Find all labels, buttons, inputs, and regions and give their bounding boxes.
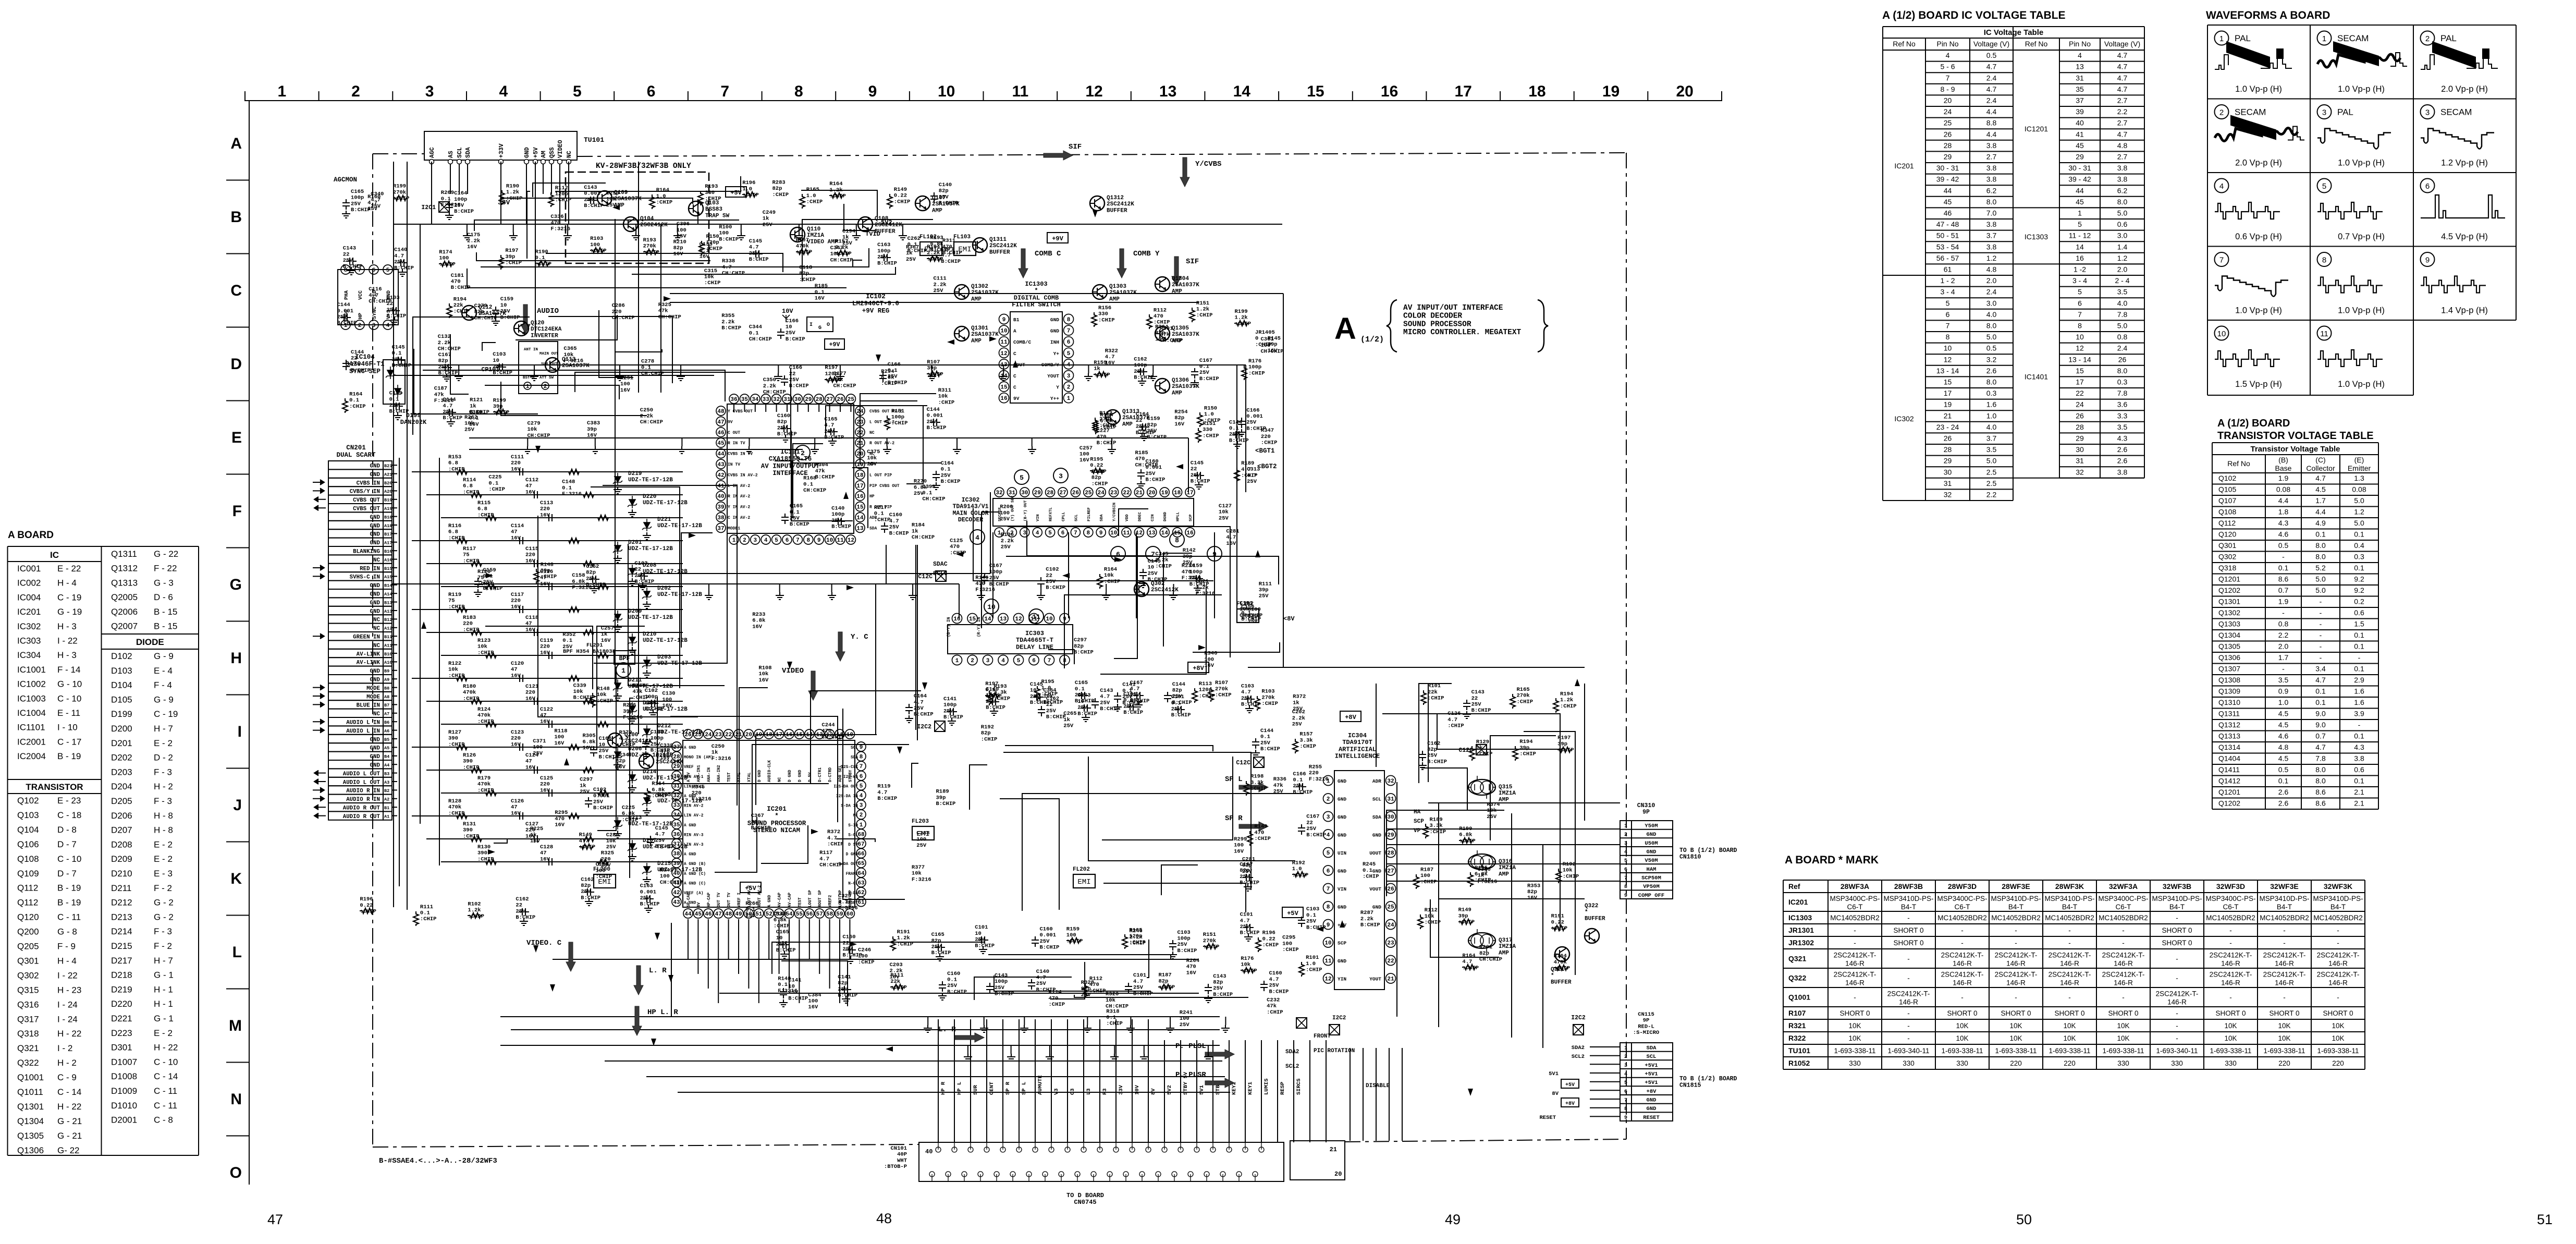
svg-text:SECAM: SECAM (2440, 107, 2472, 117)
svg-text:B:CHIP: B:CHIP (721, 325, 741, 332)
svg-text:C123: C123 (511, 729, 524, 736)
svg-text:25V: 25V (867, 461, 877, 468)
svg-text:S-ID: S-ID (848, 824, 858, 828)
wire (407, 162, 408, 910)
svg-text:DTC124EKA: DTC124EKA (531, 326, 562, 333)
connector CN101 TO D BOARD (884, 1141, 1345, 1206)
svg-text:Pin No: Pin No (2069, 40, 2091, 48)
zener diode D202 (441, 586, 683, 587)
arrow P. PLSR (1205, 1078, 1234, 1088)
svg-text:6.8k: 6.8k (914, 484, 927, 491)
svg-text:A14: A14 (384, 592, 392, 597)
svg-text:390: 390 (463, 827, 473, 834)
svg-text:B:CHIP: B:CHIP (1360, 922, 1380, 929)
svg-text:FRAME: FRAME (846, 872, 858, 876)
svg-text:+5V: +5V (533, 147, 539, 158)
svg-text:D215: D215 (111, 941, 132, 951)
svg-text:58: 58 (826, 911, 833, 918)
svg-text:1.0 Vp-p (H): 1.0 Vp-p (H) (2338, 84, 2385, 94)
svg-text:25V: 25V (438, 364, 449, 370)
waveform 8 1.0 (313, 131, 2488, 1206)
resistor R165 (1468, 872, 1473, 887)
svg-text:Q107: Q107 (932, 195, 946, 201)
svg-text:10: 10 (1110, 530, 1117, 536)
svg-text:G: G (818, 325, 821, 331)
svg-text:220: 220 (511, 598, 521, 604)
svg-text:AV INPUT/OUTPUT: AV INPUT/OUTPUT (761, 462, 820, 470)
svg-text:100: 100 (439, 255, 449, 262)
zener diode D208 (426, 563, 683, 564)
svg-text:8.0: 8.0 (2117, 367, 2128, 375)
schematic boundary bottom left (373, 1144, 919, 1147)
svg-text::CHIP: :CHIP (1420, 879, 1437, 885)
svg-text:A GND: A GND (768, 895, 772, 907)
svg-text:SHORT 0: SHORT 0 (2001, 1009, 2031, 1017)
svg-text:4.7: 4.7 (877, 789, 887, 796)
svg-text:82p: 82p (438, 358, 448, 364)
svg-text:C122: C122 (540, 706, 553, 713)
svg-text:TO D BOARD: TO D BOARD (1066, 1192, 1104, 1199)
svg-text:-: - (2229, 939, 2232, 947)
svg-text:D202: D202 (111, 753, 132, 763)
svg-text:0.1: 0.1 (2354, 665, 2364, 673)
svg-text:4.5: 4.5 (2278, 754, 2289, 763)
svg-text:15: 15 (1307, 83, 1324, 100)
svg-text:Q104: Q104 (640, 216, 654, 222)
svg-text:VP50M: VP50M (1643, 884, 1660, 890)
svg-text:MAIN OUT: MAIN OUT (539, 352, 559, 356)
svg-text:0.1: 0.1 (349, 397, 359, 404)
svg-text:-: - (1961, 939, 1964, 947)
svg-text:8: 8 (1624, 884, 1627, 890)
capacitor C145 (1194, 472, 1204, 479)
svg-text:2.2k: 2.2k (438, 340, 451, 346)
ground (847, 956, 855, 964)
transistor Q1312 (1090, 196, 1105, 211)
capacitor C160 (780, 425, 791, 432)
svg-text:25V: 25V (877, 254, 888, 261)
svg-text:25: 25 (1387, 905, 1394, 911)
svg-text:270k: 270k (1261, 694, 1274, 701)
svg-text:4.7: 4.7 (722, 264, 732, 271)
wire (511, 1029, 1220, 1030)
wire (886, 545, 887, 584)
resistor R148 (534, 569, 539, 583)
svg-text:-: - (1907, 974, 1910, 982)
svg-text:B12: B12 (384, 617, 392, 623)
svg-text:39p: 39p (1458, 913, 1468, 919)
svg-text:6.8k: 6.8k (622, 811, 635, 817)
svg-text:4: 4 (499, 83, 508, 100)
svg-text:*: * (1034, 287, 1038, 295)
svg-text:4.7: 4.7 (1448, 717, 1457, 723)
svg-text:2SC2412K-T-: 2SC2412K-T- (1834, 952, 1876, 959)
svg-text:B:CHIP: B:CHIP (438, 370, 458, 376)
svg-text:MSP3400C-PS-: MSP3400C-PS- (2205, 895, 2255, 902)
svg-text:8: 8 (1067, 317, 1071, 323)
svg-text:DIGITAL COMB: DIGITAL COMB (1014, 294, 1059, 301)
svg-text:8: 8 (806, 538, 810, 544)
svg-text:8.8: 8.8 (1986, 119, 1997, 127)
svg-text:25V: 25V (1123, 703, 1134, 710)
svg-text:C384: C384 (808, 992, 821, 998)
svg-text:IC201: IC201 (17, 607, 41, 617)
svg-text::CHIP: :CHIP (439, 261, 456, 267)
svg-text:R193: R193 (643, 237, 656, 243)
svg-text:2.2k: 2.2k (467, 238, 480, 245)
svg-text:9.0: 9.0 (2315, 710, 2326, 718)
wire (399, 458, 400, 886)
svg-text:TDA4665T-T: TDA4665T-T (1016, 637, 1053, 644)
wire (1068, 532, 1069, 618)
node waveform ref 10 (984, 599, 999, 614)
svg-text:1.0 Vp-p (H): 1.0 Vp-p (H) (2338, 306, 2385, 315)
arrow Y/CVBS (1180, 157, 1189, 187)
svg-text:ARTIFICIAL: ARTIFICIAL (1339, 746, 1376, 753)
svg-text:L OUT PIP: L OUT PIP (869, 473, 892, 478)
svg-text:48: 48 (717, 409, 725, 415)
svg-text:O: O (827, 322, 830, 328)
svg-text:220: 220 (692, 790, 702, 797)
svg-text:25V: 25V (1183, 560, 1193, 566)
resistor R165 (1122, 934, 1127, 949)
svg-text:1-693-338-11: 1-693-338-11 (1834, 1047, 1875, 1055)
waveform 5 0.7 (313, 131, 2505, 1206)
svg-text::CHIP: :CHIP (477, 787, 494, 794)
svg-text:R185: R185 (815, 283, 828, 289)
svg-text:25V: 25V (655, 837, 666, 844)
svg-text:51: 51 (2537, 1212, 2553, 1227)
svg-text:0.1: 0.1 (1293, 777, 1303, 784)
capacitor C165 (827, 428, 838, 435)
svg-text:1.2k: 1.2k (468, 907, 481, 913)
svg-text:28WF3B: 28WF3B (1894, 882, 1923, 891)
svg-text:2: 2 (1067, 385, 1071, 391)
svg-text:13: 13 (1000, 616, 1007, 623)
ground (938, 993, 947, 1000)
svg-text:F - 3: F - 3 (154, 796, 172, 806)
wire (431, 162, 432, 177)
resistor R193 (987, 691, 992, 705)
svg-text:R294: R294 (881, 369, 894, 375)
svg-text:D-CTR1: D-CTR1 (818, 767, 823, 782)
svg-text:D212: D212 (657, 723, 671, 729)
capacitor C140 (989, 698, 999, 705)
svg-text:16V: 16V (1186, 970, 1197, 976)
ground stubs (455, 224, 1230, 1061)
svg-text:C164: C164 (1136, 411, 1149, 418)
svg-text:AGC: AGC (429, 147, 436, 158)
svg-text:R3: R3 (1102, 1088, 1108, 1095)
capacitor C164 (446, 201, 453, 211)
svg-text:BUFFER: BUFFER (989, 249, 1010, 255)
A BOARD location table (8, 530, 199, 1155)
svg-text::CHIP: :CHIP (656, 200, 673, 206)
svg-text:8.0: 8.0 (2315, 553, 2326, 561)
svg-text:45: 45 (2076, 198, 2084, 206)
svg-text:12: 12 (1944, 355, 1952, 363)
schematic boundary bottom right (1345, 1139, 1626, 1142)
svg-text:C164: C164 (914, 693, 927, 700)
capacitor C101 (1126, 703, 1137, 711)
svg-text:2.2: 2.2 (1986, 491, 1997, 499)
svg-text:2SA1037K: 2SA1037K (1172, 384, 1199, 390)
svg-text:Q102: Q102 (17, 796, 39, 806)
svg-text:D209: D209 (628, 608, 642, 615)
svg-text:F - 22: F - 22 (154, 564, 177, 574)
svg-text:+9V: +9V (829, 342, 840, 348)
svg-text:R150: R150 (706, 234, 719, 240)
svg-text:MC14052BDR2: MC14052BDR2 (1937, 914, 1987, 922)
svg-text::CHIP: :CHIP (541, 574, 557, 580)
svg-text:R217: R217 (874, 505, 887, 511)
svg-text:G: G (230, 576, 242, 593)
svg-text:8.0: 8.0 (2315, 541, 2326, 550)
filter FL202 (1073, 874, 1095, 888)
svg-text:0.001: 0.001 (927, 413, 943, 419)
svg-text:25V: 25V (1148, 570, 1158, 577)
svg-text:R156: R156 (1098, 305, 1111, 311)
svg-text:39p: 39p (1557, 741, 1567, 747)
resistor R193 (643, 249, 658, 254)
svg-text:SCL: SCL (457, 147, 463, 158)
filter FL201 BPF (614, 651, 635, 664)
svg-text:A12: A12 (384, 626, 392, 631)
svg-text:TDA9170T: TDA9170T (1342, 739, 1372, 746)
svg-text:B:CHIP: B:CHIP (351, 368, 371, 374)
svg-text:Q1304: Q1304 (1172, 276, 1189, 282)
ground (780, 951, 789, 958)
svg-text:Q318: Q318 (2218, 564, 2236, 572)
svg-text:CH:CHIP: CH:CHIP (369, 299, 391, 305)
svg-text:B:CHIP: B:CHIP (927, 425, 947, 431)
svg-text:R241: R241 (1180, 1010, 1193, 1016)
svg-text:Q301: Q301 (2218, 541, 2236, 550)
svg-text:GND: GND (1372, 905, 1381, 910)
svg-text:220: 220 (540, 782, 550, 788)
svg-text:14: 14 (856, 515, 864, 521)
svg-text:+33V: +33V (498, 143, 505, 158)
svg-text:C143: C143 (995, 972, 1008, 979)
svg-text:C279: C279 (474, 303, 487, 309)
capacitor C159 (492, 307, 499, 317)
svg-text::CHIP: :CHIP (874, 517, 891, 523)
svg-text:1.2 Vp-p (H): 1.2 Vp-p (H) (2441, 158, 2488, 168)
node C12C (1254, 757, 1264, 767)
capacitor C144 (1252, 738, 1259, 749)
svg-text:47 - 48: 47 - 48 (1936, 220, 1959, 228)
svg-text:A BOARD * MARK: A BOARD * MARK (1785, 854, 1879, 866)
svg-text:16V: 16V (1204, 663, 1215, 669)
svg-text:24: 24 (705, 732, 712, 738)
svg-text:C164: C164 (454, 190, 467, 197)
svg-text:CH:CHIP: CH:CHIP (474, 315, 497, 321)
svg-text:C347: C347 (830, 245, 843, 251)
capacitor C143 (587, 197, 597, 204)
svg-text:C144: C144 (1260, 728, 1273, 734)
svg-text::CHIP: :CHIP (1261, 440, 1278, 446)
svg-text:D205: D205 (111, 796, 132, 806)
svg-text:25: 25 (848, 397, 855, 403)
svg-text:6.8k: 6.8k (774, 917, 787, 923)
svg-text:D: D (230, 356, 242, 373)
svg-text:-: - (2283, 994, 2286, 1002)
svg-text:C383: C383 (587, 420, 600, 426)
svg-text:0.22: 0.22 (360, 902, 373, 909)
svg-text:C: C (1013, 373, 1016, 379)
svg-text:11: 11 (1000, 339, 1008, 346)
zener diode D220 (426, 494, 683, 495)
svg-text:IC: IC (50, 550, 59, 560)
svg-text:2: 2 (860, 812, 863, 819)
svg-text:100: 100 (916, 836, 926, 843)
svg-text:*: * (1551, 973, 1554, 979)
svg-text:D204: D204 (111, 782, 132, 791)
svg-text:10K: 10K (2332, 1022, 2344, 1030)
svg-text:2.7: 2.7 (2117, 153, 2128, 161)
wire (1387, 844, 1620, 845)
svg-text:4.7: 4.7 (579, 838, 589, 844)
svg-text:MSP3410D-PS-: MSP3410D-PS- (2044, 895, 2094, 902)
svg-text:A15: A15 (384, 575, 392, 580)
svg-text:100p: 100p (831, 511, 844, 518)
svg-text:TRANSISTOR VOLTAGE TABLE: TRANSISTOR VOLTAGE TABLE (2217, 430, 2374, 442)
svg-text:WHT: WHT (897, 1157, 907, 1164)
svg-text:32WF3E: 32WF3E (2270, 882, 2298, 891)
svg-text:G - 8: G - 8 (57, 927, 77, 937)
svg-text:CH:CHIP: CH:CHIP (1261, 349, 1284, 355)
svg-text:R107: R107 (1788, 1009, 1806, 1017)
svg-text:25V: 25V (1213, 985, 1223, 992)
svg-text:Y/CVBS: Y/CVBS (1195, 160, 1221, 168)
svg-text:4.7: 4.7 (1036, 975, 1046, 981)
svg-text:9V: 9V (728, 420, 733, 424)
svg-text:R103: R103 (1261, 689, 1274, 695)
svg-text:A6: A6 (384, 728, 389, 734)
svg-text:H - 7: H - 7 (154, 956, 173, 966)
svg-text:Q1303: Q1303 (2218, 620, 2240, 628)
svg-text:SCL: SCL (1372, 797, 1381, 802)
svg-text::CHIP: :CHIP (1306, 967, 1322, 973)
ground (1418, 762, 1427, 770)
svg-text:32: 32 (1387, 778, 1394, 785)
svg-text:A2: A2 (384, 797, 389, 802)
svg-text:82p: 82p (1172, 688, 1182, 694)
svg-text:2: 2 (1624, 1054, 1627, 1060)
svg-text::CHIP: :CHIP (1203, 944, 1220, 950)
svg-text:B:CHIP: B:CHIP (1040, 945, 1060, 951)
svg-text:D GND: D GND (846, 853, 858, 857)
svg-text:2: 2 (358, 323, 362, 329)
svg-text:4: 4 (386, 323, 390, 329)
svg-text:+8V: +8V (1345, 714, 1356, 721)
svg-text:R318: R318 (1106, 1008, 1119, 1015)
svg-text:4.7: 4.7 (1100, 694, 1110, 700)
svg-text:25V: 25V (387, 307, 397, 313)
svg-text:C - 19: C - 19 (57, 592, 81, 602)
svg-text:Pin No: Pin No (1936, 40, 1958, 48)
svg-text:SHORT 0: SHORT 0 (2323, 1009, 2353, 1017)
svg-text:43: 43 (717, 462, 725, 468)
svg-text:4: 4 (1624, 850, 1627, 856)
svg-text:SVHS-C IN: SVHS-C IN (350, 575, 380, 581)
svg-text:C165: C165 (351, 189, 364, 195)
svg-text:AMP: AMP (932, 208, 942, 214)
svg-text:2.6: 2.6 (2117, 457, 2128, 465)
svg-text:10k: 10k (704, 274, 714, 280)
supply +5V (1282, 907, 1303, 918)
svg-text:C286: C286 (612, 303, 625, 309)
svg-text:0.6: 0.6 (2117, 220, 2128, 228)
svg-text:25V: 25V (786, 330, 796, 336)
svg-text:4: 4 (2219, 182, 2224, 191)
svg-text:R149: R149 (1458, 907, 1471, 913)
svg-text:NC: NC (566, 151, 573, 158)
arrow VIDEO. C (566, 942, 575, 971)
resistor R150 (699, 241, 704, 255)
svg-text:2: 2 (544, 384, 547, 390)
svg-text:3.8: 3.8 (2117, 175, 2128, 184)
svg-text:4.7: 4.7 (655, 832, 665, 838)
svg-text:ANA-IN: ANA-IN (707, 767, 712, 782)
svg-text:25V: 25V (1180, 1022, 1190, 1028)
svg-text:B:CHIP: B:CHIP (1074, 650, 1094, 656)
resistor R191 (890, 936, 896, 951)
svg-text:1-693-338-11: 1-693-338-11 (2102, 1047, 2144, 1055)
svg-text::CHIP: :CHIP (881, 381, 898, 387)
svg-text:C162: C162 (581, 876, 594, 883)
svg-text::CHIP: :CHIP (448, 810, 465, 816)
svg-text:17: 17 (1944, 389, 1952, 397)
svg-text:AUMUTE: AUMUTE (1037, 1075, 1044, 1095)
svg-text:Transistor Voltage Table: Transistor Voltage Table (2251, 445, 2340, 454)
svg-text:2.0 Vp-p (H): 2.0 Vp-p (H) (2235, 158, 2282, 168)
svg-text:0.1: 0.1 (745, 907, 755, 913)
svg-text:4.8: 4.8 (2278, 743, 2289, 751)
svg-text:GND: GND (370, 464, 381, 470)
svg-text:16: 16 (1186, 530, 1193, 536)
svg-text:IC1001: IC1001 (17, 665, 46, 675)
svg-text:C165: C165 (931, 932, 944, 938)
svg-text:49: 49 (1445, 1212, 1461, 1227)
svg-text:470: 470 (821, 728, 831, 735)
svg-text:Y: Y (1056, 385, 1059, 391)
ground (1245, 705, 1254, 713)
svg-text:2.0 Vp-p (H): 2.0 Vp-p (H) (2441, 84, 2488, 94)
svg-text::CHIP: :CHIP (579, 844, 596, 850)
svg-text:4.7: 4.7 (619, 736, 629, 742)
svg-text:D - 6: D - 6 (154, 592, 173, 602)
svg-text:I - 22: I - 22 (57, 970, 78, 980)
svg-text::CHIP: :CHIP (477, 650, 494, 656)
I2C2 node (1573, 1025, 1584, 1035)
svg-text:82p: 82p (1174, 415, 1184, 421)
svg-text:YOUT: YOUT (1047, 373, 1059, 379)
svg-text:25V: 25V (389, 403, 400, 409)
svg-text:G - 21: G - 21 (57, 1131, 82, 1141)
svg-text:E - 11: E - 11 (57, 708, 80, 718)
svg-text:-: - (2122, 939, 2125, 947)
svg-text:H - 1: H - 1 (154, 999, 173, 1009)
svg-text:10k: 10k (606, 838, 616, 845)
svg-text:25V: 25V (1242, 869, 1253, 875)
svg-text:15: 15 (1944, 378, 1952, 386)
svg-text:C101: C101 (975, 924, 988, 931)
svg-text:0.001: 0.001 (640, 889, 657, 895)
svg-text:B:CHIP: B:CHIP (1199, 376, 1219, 382)
svg-text:16V: 16V (601, 862, 611, 869)
svg-text:17: 17 (856, 483, 863, 490)
